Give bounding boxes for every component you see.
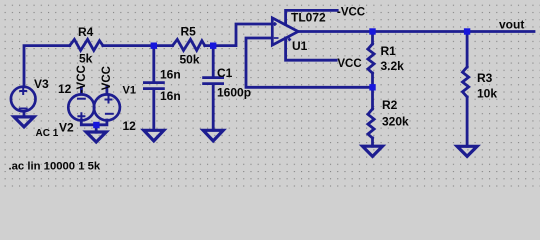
svg-text:12: 12 — [58, 82, 72, 96]
svg-text:10k: 10k — [477, 87, 497, 101]
svg-text:U1: U1 — [292, 39, 308, 53]
svg-text:1600p: 1600p — [217, 85, 251, 99]
svg-text:-VCC: -VCC — [337, 7, 365, 19]
svg-text:12: 12 — [123, 119, 137, 133]
svg-text:16n: 16n — [160, 89, 181, 103]
svg-text:vout: vout — [499, 18, 524, 32]
svg-text:320k: 320k — [382, 115, 409, 129]
svg-text:16n: 16n — [160, 68, 181, 82]
svg-text:.ac lin 10000 1 5k: .ac lin 10000 1 5k — [9, 160, 101, 172]
svg-text:C1: C1 — [217, 66, 233, 80]
svg-text:50k: 50k — [180, 53, 200, 67]
svg-text:V2: V2 — [59, 121, 74, 135]
svg-text:AC 1: AC 1 — [36, 128, 59, 139]
svg-text:R3: R3 — [477, 71, 493, 85]
svg-text:R5: R5 — [181, 25, 197, 39]
svg-text:VCC: VCC — [101, 66, 113, 90]
svg-text:3.2k: 3.2k — [381, 59, 405, 73]
svg-text:R4: R4 — [78, 25, 94, 39]
svg-text:R1: R1 — [381, 44, 397, 58]
svg-text:V3: V3 — [34, 77, 49, 91]
svg-text:VCC: VCC — [337, 58, 361, 70]
svg-text:5k: 5k — [79, 52, 93, 66]
svg-text:-VCC: -VCC — [76, 65, 88, 93]
svg-text:R2: R2 — [382, 98, 398, 112]
svg-text:V1: V1 — [123, 85, 136, 97]
svg-text:TL072: TL072 — [291, 11, 326, 25]
